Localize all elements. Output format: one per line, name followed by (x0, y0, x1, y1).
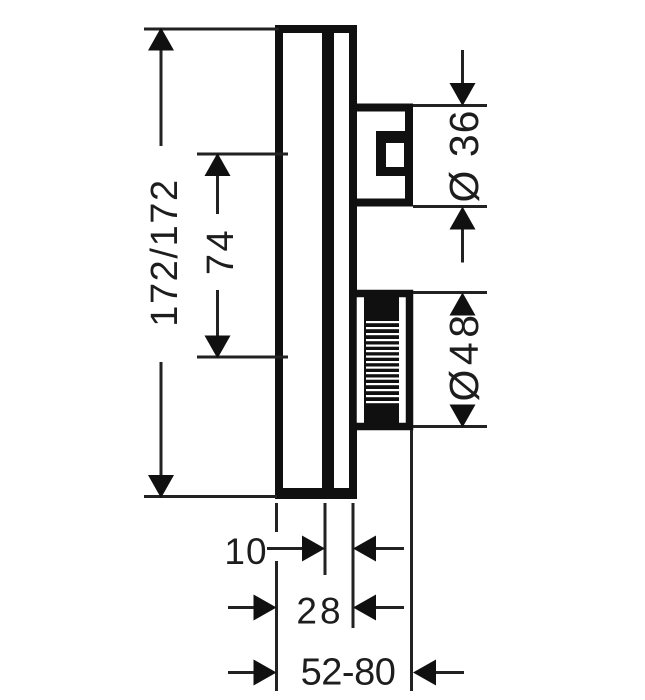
ext line below plate right edge (352, 503, 355, 628)
ext line 74 top (197, 153, 288, 156)
svg-text:28: 28 (296, 591, 343, 632)
dim line 74 (205, 153, 231, 359)
dim 10 (267, 536, 404, 562)
svg-text:Ø 36: Ø 36 (441, 110, 487, 203)
dim line 172/172 (148, 28, 174, 499)
ext line handle top (413, 104, 487, 107)
dim 52-80 (228, 660, 464, 686)
dim line Ø36 (450, 50, 476, 263)
plate inner bar (322, 27, 334, 497)
svg-text:Ø48: Ø48 (441, 311, 487, 402)
dim 28 (228, 595, 404, 621)
ext line 74 bottom (197, 356, 288, 359)
ext line below inner bar (324, 503, 327, 575)
ext line below plate left edge (275, 503, 278, 691)
knurl texture (364, 297, 399, 423)
thermostat knob Ø48 outline (353, 294, 410, 427)
ext line knob top (413, 291, 487, 294)
svg-text:172/172: 172/172 (144, 178, 186, 327)
handle slot (376, 131, 413, 176)
svg-text:74: 74 (200, 228, 242, 275)
plate bottom edge thick (275, 488, 357, 499)
ext line knob bottom (413, 425, 487, 428)
ext line below knob right edge (410, 430, 413, 691)
ext line plate top left (144, 28, 279, 31)
svg-text:10: 10 (224, 531, 267, 572)
ext line plate bottom left (144, 495, 277, 498)
handle stem Ø36 outline (353, 108, 409, 203)
escutcheon plate outline (279, 29, 353, 495)
svg-text:52-80: 52-80 (301, 652, 396, 694)
dim line Ø48 (450, 293, 476, 428)
ext line handle bottom (413, 205, 487, 208)
